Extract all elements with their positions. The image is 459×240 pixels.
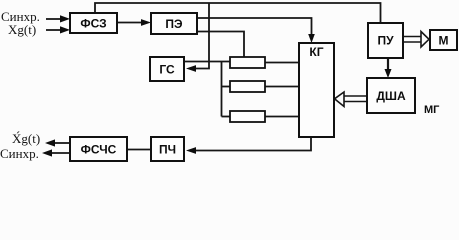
svg-text:ПЧ: ПЧ xyxy=(159,143,176,157)
svg-text:ФСЧС: ФСЧС xyxy=(81,143,117,157)
svg-text:Xg(t): Xg(t) xyxy=(8,22,36,37)
svg-text:X́g(t): X́g(t) xyxy=(12,131,40,146)
svg-text:ПУ: ПУ xyxy=(377,34,394,48)
svg-text:ДША: ДША xyxy=(376,89,406,103)
svg-text:МГ: МГ xyxy=(424,104,440,116)
svg-text:КГ: КГ xyxy=(309,45,323,59)
svg-text:ГС: ГС xyxy=(159,63,175,77)
svg-text:ПЭ: ПЭ xyxy=(165,17,183,31)
svg-text:Синхр.: Синхр. xyxy=(0,146,39,161)
svg-text:М: М xyxy=(439,34,449,48)
svg-text:ФСЗ: ФСЗ xyxy=(80,17,106,31)
